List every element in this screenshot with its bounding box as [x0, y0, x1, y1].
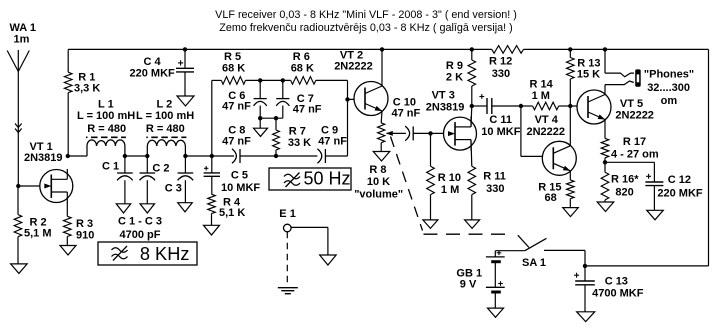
capacitor C7 47nF: [276, 80, 289, 118]
node C13: [583, 264, 587, 268]
transistor VT3 2N3819: [444, 117, 477, 151]
ground under C3: [178, 203, 193, 212]
capacitor C6 47nF: [254, 80, 267, 118]
resistor R13 15K: [567, 58, 575, 80]
ground under GB1: [488, 308, 504, 317]
ground under R4: [204, 225, 220, 235]
svg-text:"Phones": "Phones": [644, 69, 694, 81]
wire VT3 source: [470, 140, 473, 166]
svg-text:C 3: C 3: [165, 183, 182, 195]
label Phones: [644, 69, 694, 108]
transistor VT2 2N2222: [354, 82, 388, 116]
label R2: [24, 217, 52, 240]
node VT2 collector rail: [380, 47, 384, 51]
svg-text:47 nF: 47 nF: [222, 101, 251, 113]
svg-text:910: 910: [76, 230, 94, 242]
pot wiper arrow: [386, 131, 406, 136]
svg-text:68: 68: [545, 192, 557, 204]
svg-text:C 2: C 2: [152, 163, 169, 175]
svg-text:L 1: L 1: [98, 99, 114, 111]
node L2-C3: [183, 154, 187, 158]
wire top rail: [68, 48, 708, 50]
label L2: [136, 99, 194, 136]
svg-text:47 nF: 47 nF: [318, 136, 347, 148]
svg-text:68 K: 68 K: [291, 63, 314, 75]
node C10-R10: [428, 131, 432, 135]
node VT4 collector link: [568, 104, 572, 108]
wire VT5 base: [570, 105, 588, 107]
label C5: [221, 170, 260, 195]
wire R8 gnd: [380, 143, 382, 152]
svg-text:5,1 K: 5,1 K: [219, 207, 245, 219]
svg-text:C 4: C 4: [144, 56, 162, 68]
svg-text:4700 MKF: 4700 MKF: [592, 288, 644, 300]
wire C4 gnd: [184, 72, 186, 96]
svg-text:47 nF: 47 nF: [392, 108, 421, 120]
label C11: [481, 114, 520, 138]
svg-text:WA 1: WA 1: [10, 22, 37, 34]
svg-text:R 8: R 8: [369, 164, 386, 176]
svg-text:10 MKF: 10 MKF: [221, 182, 260, 194]
svg-text:R 6: R 6: [293, 51, 310, 63]
capacitor C1: [117, 156, 133, 204]
wire R11 gnd: [471, 195, 473, 220]
ground under E1 wire: [320, 255, 337, 265]
svg-text:L 2: L 2: [157, 99, 173, 111]
wire C10 to gate: [413, 132, 449, 134]
wire right edge: [708, 49, 710, 266]
switch SA1 lever: [525, 238, 547, 250]
wire VT4 collector: [569, 106, 571, 146]
resistor R11 330: [468, 166, 476, 194]
svg-text:820: 820: [615, 186, 633, 198]
capacitor C12 220MKF: [645, 174, 663, 186]
ground under C13: [577, 312, 595, 322]
wire R10 gnd: [430, 195, 432, 220]
svg-text:2N2222: 2N2222: [615, 109, 654, 121]
node phones rail: [603, 47, 607, 51]
capacitor C4 220MKF: [176, 60, 194, 72]
label C6: [222, 90, 251, 113]
node R9 rail: [470, 47, 474, 51]
svg-text:47 nF: 47 nF: [293, 104, 322, 116]
wire switch to C13: [544, 250, 585, 266]
svg-text:L = 100 mH: L = 100 mH: [77, 110, 135, 122]
title line 1: [215, 9, 517, 21]
wire VT2 emitter: [380, 111, 383, 123]
node VT1 drain: [66, 154, 70, 158]
capacitor C8 47nF: [232, 149, 240, 164]
wire C6-C7 bottom: [260, 117, 283, 119]
svg-text:2N2222: 2N2222: [334, 61, 373, 73]
svg-text:R = 480: R = 480: [146, 123, 185, 135]
earth symbol E1: [278, 288, 298, 294]
label R9: [446, 60, 463, 84]
transistor VT4 2N2222: [542, 141, 576, 175]
wire VT4 base: [521, 106, 553, 156]
svg-text:C 1 - C 3: C 1 - C 3: [118, 216, 162, 228]
label C8: [222, 125, 251, 148]
resistor R12 330: [492, 46, 524, 54]
svg-text:SA 1: SA 1: [522, 257, 546, 269]
svg-text:47 nF: 47 nF: [222, 136, 251, 148]
phones plug: [635, 69, 641, 86]
wire R2 top: [17, 186, 19, 215]
wire VT1 source: [66, 203, 68, 217]
wire R4 gnd: [211, 214, 213, 226]
terminal E1: [284, 224, 292, 232]
svg-text:R 11: R 11: [483, 171, 506, 183]
wire C9 to base riser: [325, 99, 347, 156]
label C13: [592, 276, 644, 300]
ground under R10: [423, 220, 438, 229]
label C12: [657, 174, 703, 200]
wire phones lower: [605, 81, 634, 85]
node VT2 base: [345, 97, 349, 101]
mechanical link dashed: [391, 137, 512, 235]
svg-text:R 5: R 5: [224, 51, 241, 63]
resistor R15 68: [567, 180, 575, 199]
svg-text:R = 480: R = 480: [87, 123, 126, 135]
label VT1: [24, 141, 63, 164]
label C4: [130, 56, 176, 80]
resistor R9 2K: [468, 60, 476, 86]
svg-text:32....300: 32....300: [647, 82, 690, 94]
label R7: [288, 126, 311, 150]
capacitor C11 10MKF: [479, 94, 491, 114]
wire C13 to right edge: [585, 265, 709, 267]
label R6: [291, 51, 314, 75]
svg-text:om: om: [661, 95, 678, 107]
label VT5: [615, 98, 654, 121]
battery GB1 9V: [486, 251, 505, 309]
wire L2 to C5 node: [185, 155, 211, 157]
label R10: [438, 172, 461, 196]
wire R16 top: [604, 162, 606, 172]
svg-text:Zemo frekvenču radiouztvērējs: Zemo frekvenču radiouztvērējs 0,03 - 8 K…: [219, 22, 512, 34]
label R11: [483, 171, 506, 196]
wire node to R14: [521, 105, 533, 107]
resistor R1 3,3K: [64, 72, 72, 93]
wire gate VT1: [18, 185, 45, 187]
label R8: [354, 164, 403, 201]
svg-text:1 M: 1 M: [441, 184, 459, 196]
wire C11 to node: [492, 105, 521, 107]
wire VT4 emitter: [569, 171, 571, 180]
svg-text:R 16*: R 16*: [611, 174, 639, 186]
antenna WA1: [7, 50, 29, 72]
node C7 top: [281, 78, 285, 82]
resistor R6 68K: [291, 77, 316, 85]
wire R14 to node: [559, 105, 571, 107]
ground under C1: [116, 204, 131, 213]
inductor L2 100mH: [146, 137, 186, 156]
svg-text:R 9: R 9: [446, 60, 463, 72]
svg-text:R 10: R 10: [438, 172, 461, 184]
wire R17 bottom: [604, 158, 606, 163]
label C7: [293, 93, 322, 116]
resistor R2 5,1M: [14, 215, 22, 237]
transistor VT1 2N3819: [40, 169, 73, 203]
wire VT5 emitter: [604, 120, 606, 139]
resistor R7 33K: [273, 118, 280, 156]
capacitor C10 47nF: [405, 126, 413, 141]
wire R13 top: [569, 49, 571, 57]
ground under C4: [177, 96, 194, 106]
node C6 bottom: [258, 116, 262, 120]
svg-text:E 1: E 1: [279, 208, 296, 220]
wire C13 gnd: [584, 285, 586, 312]
svg-text:2N2222: 2N2222: [527, 126, 566, 138]
ground under C2: [140, 204, 155, 213]
capacitor C9 47nF: [317, 149, 325, 164]
resistor R3 910: [64, 216, 72, 236]
svg-text:4700 pF: 4700 pF: [120, 229, 161, 241]
svg-text:68 K: 68 K: [222, 63, 245, 75]
svg-text:10 K: 10 K: [367, 176, 390, 188]
ground under R11: [465, 220, 480, 229]
label C9: [318, 125, 347, 148]
capacitor C3: [178, 156, 194, 203]
label R3: [76, 218, 94, 242]
svg-text:10 MKF: 10 MKF: [481, 126, 520, 138]
label R14: [530, 79, 554, 103]
signal direction chevrons: [15, 124, 22, 133]
label E1: [279, 208, 296, 220]
wire R13 bottom: [569, 79, 571, 106]
node gate VT1: [16, 184, 20, 188]
capacitor C2: [140, 156, 156, 204]
label R13: [577, 57, 601, 80]
ground under C12: [647, 210, 664, 220]
svg-text:R 12: R 12: [489, 56, 512, 68]
wire R5 to R6: [246, 79, 291, 81]
svg-text:"volume": "volume": [354, 189, 403, 201]
callout box 8 KHz: [98, 242, 197, 265]
wire C8 to C9: [240, 155, 317, 157]
node R7 bottom: [274, 154, 278, 158]
label C3: [165, 183, 182, 195]
label SA1: [522, 257, 546, 269]
wire R1 bottom: [67, 93, 69, 156]
resistor R4 5,1K: [208, 194, 216, 213]
svg-text:VT 5: VT 5: [620, 98, 643, 110]
E1 dashed earth lead: [286, 232, 288, 287]
svg-text:C 11: C 11: [489, 114, 512, 126]
svg-text:C 1: C 1: [102, 161, 119, 173]
node L2-C2: [145, 154, 149, 158]
label VT2: [334, 50, 373, 73]
node C6 top: [258, 78, 262, 82]
svg-text:2N3819: 2N3819: [24, 152, 63, 164]
svg-text:VLF receiver 0,03 - 8 KHz "Min: VLF receiver 0,03 - 8 KHz "Mini VLF - 20…: [215, 9, 517, 21]
wire R16 gnd: [604, 200, 606, 202]
svg-text:VT 3: VT 3: [432, 90, 455, 102]
wire R1 top: [67, 49, 69, 72]
wire VT3 drain: [470, 106, 473, 127]
svg-text:1m: 1m: [14, 34, 30, 46]
label VT3: [426, 90, 465, 114]
svg-text:33 K: 33 K: [288, 137, 311, 149]
svg-text:2N3819: 2N3819: [426, 102, 465, 114]
switch SA1 actuator: [518, 235, 529, 247]
node C5: [210, 154, 214, 158]
wire C4 top: [184, 49, 186, 68]
label R5: [222, 51, 245, 75]
wire VT2 base: [348, 98, 366, 100]
wire battery to switch: [495, 250, 525, 252]
svg-text:220 MKF: 220 MKF: [130, 68, 176, 80]
resistor R16 820: [601, 172, 609, 200]
node VT4 base link: [519, 104, 523, 108]
svg-text:50 Hz: 50 Hz: [304, 169, 351, 189]
ground under R8: [373, 152, 390, 162]
svg-text:R 13: R 13: [577, 57, 600, 69]
label L1: [77, 99, 135, 136]
node L1-C1: [123, 154, 127, 158]
svg-text:220 MKF: 220 MKF: [657, 188, 703, 200]
ground under R16: [597, 202, 614, 212]
transistor VT5 2N2222: [577, 90, 611, 124]
wire C12 gnd: [653, 186, 655, 211]
svg-text:3,3 K: 3,3 K: [74, 83, 100, 95]
wire VT2 collector: [381, 49, 383, 86]
wire R2 gnd: [17, 237, 19, 264]
wire antenna down: [17, 72, 19, 187]
wire VT5 collector: [604, 85, 606, 95]
label VT4: [527, 114, 566, 138]
resistor R8 10K volume: [378, 123, 385, 143]
label C2: [152, 163, 169, 175]
wire R3 gnd: [66, 237, 68, 246]
svg-text:C 5: C 5: [231, 170, 248, 182]
svg-text:1 M: 1 M: [532, 90, 550, 102]
resistor R17 4-27om: [601, 138, 609, 157]
svg-text:15 K: 15 K: [577, 69, 600, 81]
wire E1 to gnd: [291, 227, 328, 255]
wire twin-T riser: [212, 80, 222, 156]
node R13 rail: [568, 47, 572, 51]
label R17: [611, 136, 659, 161]
wire drain to L1: [68, 155, 87, 157]
label C10: [392, 97, 421, 120]
svg-text:R 3: R 3: [76, 218, 93, 230]
svg-text:R 14: R 14: [530, 79, 554, 91]
resistor R14 1M: [533, 102, 559, 110]
wire drain to C11: [472, 105, 487, 107]
label C1-C3 4700pF: [118, 216, 162, 242]
svg-text:4 - 27 om: 4 - 27 om: [611, 149, 659, 161]
node VT3 drain: [470, 104, 474, 108]
wire L1 to L2: [125, 155, 147, 157]
inductor L1 100mH: [86, 137, 126, 156]
wire R9 bottom: [471, 86, 473, 106]
label R1: [74, 72, 100, 95]
wire C5node to C8: [212, 155, 234, 157]
capacitor C5 10MKF: [204, 156, 220, 194]
wire R10 top: [430, 133, 432, 166]
svg-text:2 K: 2 K: [446, 72, 463, 84]
ground under C6: [254, 118, 268, 136]
ground under R2: [11, 264, 28, 274]
label WA 1: [10, 22, 37, 46]
wire phones upper: [605, 49, 634, 76]
label R4: [219, 197, 245, 220]
svg-text:C 12: C 12: [668, 174, 691, 186]
svg-text:8 KHz: 8 KHz: [140, 244, 190, 264]
title line 2: [219, 22, 512, 34]
ground under R3: [60, 246, 76, 256]
resistor R10 1M: [427, 166, 435, 194]
ground under R15: [563, 208, 579, 217]
svg-text:VT 4: VT 4: [535, 114, 559, 126]
wire C13 top: [584, 266, 586, 281]
resistor R5 68K: [221, 77, 245, 85]
svg-text:330: 330: [486, 183, 504, 195]
label GB1: [456, 267, 482, 290]
label R15: [538, 182, 561, 205]
capacitor C13 4700MKF: [574, 273, 595, 285]
svg-text:5,1 M: 5,1 M: [24, 228, 52, 240]
svg-text:R 17: R 17: [623, 136, 646, 148]
svg-text:C 13: C 13: [605, 276, 628, 288]
wire node to C12: [605, 162, 654, 182]
wire R9 top: [471, 49, 473, 60]
callout box 50 Hz: [269, 168, 351, 190]
svg-text:L = 100 mH: L = 100 mH: [136, 110, 194, 122]
svg-text:9 V: 9 V: [460, 278, 477, 290]
label R12: [489, 56, 512, 81]
svg-text:330: 330: [492, 68, 510, 80]
node C4 rail: [183, 47, 187, 51]
wire R6 to VT2 base: [316, 80, 348, 99]
label R16: [611, 174, 639, 199]
node R7 top: [274, 116, 278, 120]
label C1: [102, 161, 119, 173]
wire R15 gnd: [569, 199, 571, 208]
svg-text:R 7: R 7: [289, 126, 306, 138]
node R17-R16-C12: [603, 160, 607, 164]
